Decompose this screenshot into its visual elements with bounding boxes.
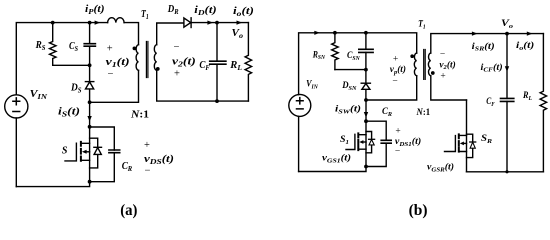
transformer T1 (b) primary winding	[414, 53, 416, 76]
svg-text:+: +	[144, 140, 150, 151]
svg-text:S1: S1	[340, 135, 349, 146]
wire: (a) left vertical and primary top rail	[16, 23, 107, 95]
transistor Q: switch S1 (MOSFET with body diode)	[346, 121, 375, 166]
transformer T1 (a) primary winding	[136, 45, 138, 71]
arrow i_D	[207, 21, 213, 25]
wire: secondary top lead (b) and output top rail	[431, 34, 544, 54]
node: S1 loop bottom	[364, 165, 368, 169]
arrow i_o (b)	[527, 32, 533, 36]
polarity dot secondary (b)	[431, 71, 435, 75]
svg-text:vDS(t): vDS(t)	[144, 154, 174, 166]
svg-text:Vo: Vo	[232, 28, 244, 40]
capacitor C_S	[84, 23, 95, 66]
capacitor C_R (a) loop	[90, 127, 120, 182]
node: output top C_F junction (a)	[215, 21, 219, 25]
svg-text:N:1: N:1	[416, 108, 431, 118]
svg-text:iSW(t): iSW(t)	[335, 104, 361, 116]
wire: i_S segment	[89, 102, 91, 127]
wire: V_IN (a) bottom stub	[15, 118, 17, 187]
wire: R_S bottom to C_S bottom	[53, 64, 90, 66]
svg-text:iCF(t): iCF(t)	[481, 62, 503, 74]
node: output bottom C_F junction (a)	[215, 99, 219, 103]
wire: (a) hump loop on primary top rail	[108, 18, 125, 23]
transistor Q: switch S_R (MOSFET with body diode)	[445, 100, 476, 172]
node: S1 loop top	[364, 119, 368, 123]
svg-text:RS: RS	[35, 40, 46, 52]
resistor R_L (b)	[540, 34, 547, 172]
capacitor C_R (b) loop	[366, 121, 391, 166]
svg-text:T1: T1	[141, 9, 149, 21]
arrow i_P	[95, 21, 101, 25]
svg-text:vDS1(t): vDS1(t)	[395, 136, 421, 148]
wire: output bottom rail (b)	[467, 171, 544, 173]
node: D_S to primary bottom junction	[88, 100, 92, 104]
resistor R_L (a)	[245, 23, 252, 102]
wire: primary bottom lead (a)	[90, 70, 139, 102]
svg-text:(b): (b)	[409, 202, 428, 219]
transistor Q: switch S (MOSFET with body diode)	[65, 127, 102, 182]
svg-text:(a): (a)	[120, 202, 137, 219]
capacitor C_F (b)	[501, 34, 514, 172]
transformer T1 (a) core	[146, 42, 148, 78]
svg-text:CR: CR	[122, 161, 133, 173]
arrow input (b)	[314, 31, 320, 35]
svg-text:RL: RL	[522, 91, 532, 102]
wire: (a) bottom rail	[16, 182, 89, 187]
node: switch loop top	[88, 125, 92, 129]
capacitor C_F (a)	[210, 23, 226, 102]
svg-text:−: −	[108, 69, 114, 80]
transformer T1 (b) secondary winding	[428, 53, 430, 76]
arrow i_SW	[364, 112, 368, 118]
svg-text:+: +	[440, 72, 445, 82]
svg-text:N:1: N:1	[130, 110, 149, 121]
transformer T1 (a) secondary winding	[154, 45, 156, 71]
diode D_R	[184, 18, 191, 28]
svg-text:v2(t): v2(t)	[439, 59, 455, 71]
wire: secondary bottom lead (b)	[431, 76, 467, 100]
polarity dot primary (a)	[133, 47, 137, 51]
svg-text:−: −	[173, 42, 179, 53]
svg-text:S: S	[62, 145, 68, 156]
wire: output bottom rail (a)	[157, 70, 249, 101]
resistor R_SN	[332, 33, 339, 70]
svg-text:io(t): io(t)	[516, 40, 534, 52]
diode D_S	[85, 65, 93, 102]
svg-text:+: +	[395, 126, 400, 136]
wire: output top rail (a)	[191, 22, 248, 24]
svg-text:RL: RL	[229, 60, 242, 72]
node: D_SN to primary bottom junction	[364, 98, 368, 102]
capacitor C_SN	[359, 33, 373, 70]
svg-text:CF: CF	[199, 60, 209, 72]
svg-text:DS: DS	[70, 83, 81, 95]
resistor R_S	[50, 23, 57, 66]
wire: primary bottom lead (b)	[366, 76, 417, 100]
arrow i_S	[87, 116, 91, 122]
svg-text:iD(t): iD(t)	[194, 5, 216, 17]
svg-text:CF: CF	[486, 97, 495, 108]
svg-text:v2(t): v2(t)	[172, 56, 196, 68]
source V_IN (a)	[5, 95, 28, 118]
svg-text:iSR(t): iSR(t)	[472, 41, 495, 53]
polarity dot secondary (a)	[156, 67, 160, 71]
svg-text:CS: CS	[69, 41, 78, 53]
svg-text:vGS1(t): vGS1(t)	[322, 153, 351, 165]
svg-text:Vo: Vo	[501, 19, 514, 30]
svg-text:−: −	[440, 50, 445, 60]
node: snubber bottom junction	[364, 68, 368, 72]
wire: (a) rail to primary winding top lead	[124, 23, 138, 45]
svg-text:DSN: DSN	[341, 81, 356, 92]
node: (a) top rail C_S junction	[88, 21, 92, 25]
svg-text:iP(t): iP(t)	[85, 4, 105, 16]
wire: secondary top lead (a)	[157, 23, 184, 45]
wire: V_IN (b) bottom stub	[298, 116, 300, 171]
svg-text:+: +	[107, 44, 113, 55]
svg-text:DR: DR	[167, 4, 179, 16]
svg-text:CR: CR	[382, 107, 393, 118]
svg-text:RSN: RSN	[312, 50, 325, 61]
diode D_SN	[361, 70, 370, 100]
node: (b) top rail C_SN junction	[364, 31, 368, 35]
svg-text:vGSR(t): vGSR(t)	[427, 162, 454, 174]
svg-text:VIN: VIN	[306, 80, 318, 91]
node: (a) top rail R_S junction	[51, 21, 55, 25]
node: switch loop bottom	[88, 180, 92, 184]
svg-text:iS(t): iS(t)	[58, 107, 80, 119]
wire: R_SN bottom to C_SN bottom	[335, 69, 366, 71]
svg-text:−: −	[392, 76, 397, 86]
svg-text:−: −	[145, 165, 151, 176]
svg-text:+: +	[393, 55, 398, 65]
svg-text:vp(t): vp(t)	[390, 64, 406, 76]
wire: (b) primary bottom rail	[299, 167, 366, 172]
transformer T1 (b) core	[424, 50, 426, 80]
arrow i_SR	[472, 32, 478, 36]
wire: (b) left vertical and primary top rail	[299, 33, 417, 95]
node: R_S/C_S/D_S junction	[88, 63, 92, 67]
svg-text:VIN: VIN	[30, 89, 48, 101]
svg-text:v1(t): v1(t)	[106, 57, 130, 69]
svg-text:io(t): io(t)	[233, 6, 254, 18]
wire: i_SW segment	[365, 100, 367, 121]
node: C_F bottom junction (b)	[505, 170, 508, 173]
svg-text:T1: T1	[418, 20, 426, 31]
arrow i_CF	[505, 66, 509, 72]
polarity dot primary (b)	[410, 54, 414, 58]
node: (b) top rail R_SN junction	[333, 31, 337, 35]
svg-text:−: −	[395, 147, 400, 157]
svg-text:+: +	[174, 68, 180, 79]
arrow i_o (a)	[237, 21, 243, 25]
node: V_o junction (b)	[505, 32, 509, 36]
svg-text:SR: SR	[481, 134, 493, 145]
source V_IN (b)	[289, 94, 311, 116]
